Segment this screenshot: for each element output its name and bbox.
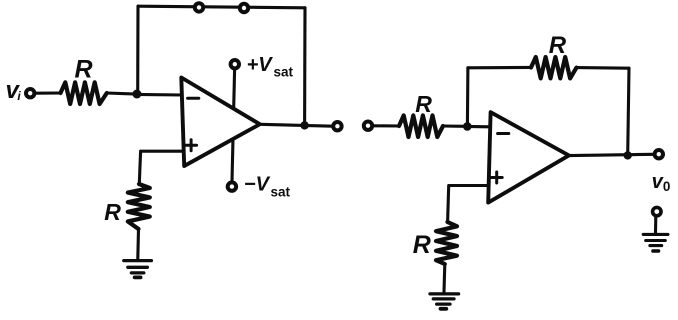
label R2 <box>104 199 121 225</box>
terminal vi input <box>26 89 34 97</box>
terminal input U2 <box>364 122 372 130</box>
svg-text:R: R <box>549 32 567 59</box>
label +Vsat <box>247 54 294 80</box>
svg-text:+V: +V <box>247 54 274 76</box>
wire feedback right <box>577 66 630 70</box>
wire R3 to node B <box>443 124 464 127</box>
node output U2 dot <box>624 151 632 159</box>
resistor R4 <box>531 57 577 78</box>
node B junction dot <box>463 122 472 131</box>
pin minus U1 <box>188 97 199 100</box>
pin plus U2 <box>491 172 502 183</box>
ground G2 <box>430 294 459 309</box>
wire input to R1 <box>35 91 61 94</box>
resistor R3 <box>399 115 443 137</box>
wire R1 to node A <box>107 93 134 94</box>
label R4 <box>549 32 567 59</box>
op-amp U1 <box>181 78 259 167</box>
wire terminal to ground <box>654 216 657 233</box>
label R5 <box>413 231 431 259</box>
label -Vsat <box>244 173 291 199</box>
terminal v0 <box>655 150 663 158</box>
wire top feedback <box>138 6 305 8</box>
wire R2 to ground <box>136 229 140 259</box>
label vi <box>6 77 22 104</box>
wire U1 output <box>260 124 333 126</box>
wire feedback down to output <box>303 8 306 125</box>
pin minus U2 <box>498 132 509 135</box>
svg-text:0: 0 <box>663 179 671 194</box>
terminal +Vsat <box>231 60 239 68</box>
terminal -Vsat <box>228 182 236 190</box>
svg-text:R: R <box>104 199 121 225</box>
node output U1 dot <box>300 121 308 129</box>
resistor R5 <box>436 222 457 264</box>
op-amp U2 <box>488 112 569 202</box>
node A junction dot <box>132 90 141 99</box>
wire noninverting input <box>139 151 182 184</box>
wire noninverting input U2 <box>448 186 490 223</box>
wire node A to inverting input <box>136 93 182 97</box>
wire U2 output <box>569 154 654 155</box>
terminal output U1 <box>333 122 341 130</box>
resistor R2 <box>128 184 150 229</box>
wire input U2 to R3 <box>373 124 400 127</box>
terminal jumper right <box>240 4 248 12</box>
svg-text:R: R <box>415 91 432 117</box>
svg-text:R: R <box>413 231 431 259</box>
label v0 <box>652 171 671 194</box>
svg-text:R: R <box>75 55 93 83</box>
label R1 <box>75 55 93 83</box>
svg-text:sat: sat <box>271 185 291 200</box>
wire node B up <box>466 68 470 127</box>
resistor R1 <box>61 82 107 104</box>
ground G3 <box>643 234 668 251</box>
wire feedback down to output U2 <box>628 68 629 155</box>
svg-text:−V: −V <box>244 173 271 195</box>
wire feedback left <box>468 66 532 70</box>
ground G1 <box>124 261 152 278</box>
terminal jumper left <box>195 3 203 11</box>
wire node A up to feedback <box>136 6 139 93</box>
terminal ground reference <box>653 207 661 215</box>
pin plus U1 <box>186 140 197 151</box>
svg-text:sat: sat <box>274 65 294 80</box>
wire R5 to ground <box>442 264 446 292</box>
wire supply vertical <box>232 65 235 186</box>
label R3 <box>415 91 432 117</box>
wire node B to inverting input U2 <box>465 125 490 129</box>
